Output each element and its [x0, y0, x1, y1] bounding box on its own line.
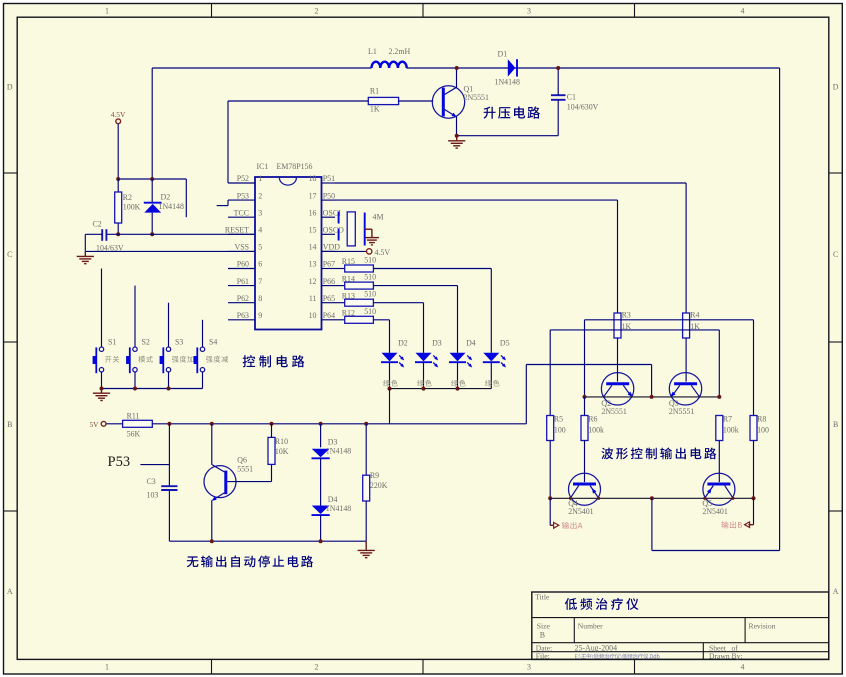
resistor R10 — [271, 464, 273, 481]
svg-text:14: 14 — [309, 243, 317, 252]
svg-text:2: 2 — [258, 191, 262, 200]
switch S1 — [101, 269, 103, 348]
svg-text:7: 7 — [258, 277, 262, 286]
junction stop rail — [210, 539, 214, 543]
wire C3 column bottom — [168, 490, 170, 541]
svg-text:4: 4 — [258, 226, 262, 235]
svg-text:OSCO: OSCO — [323, 226, 344, 235]
svg-text:3: 3 — [258, 208, 262, 217]
svg-text:10K: 10K — [275, 447, 289, 456]
svg-text:R6: R6 — [588, 415, 597, 424]
junction output rail — [548, 496, 552, 500]
wire R8 down — [753, 441, 755, 499]
svg-text:A: A — [833, 587, 839, 596]
wire output A stub — [549, 498, 551, 525]
svg-text:15: 15 — [309, 226, 317, 235]
wire P52 route — [227, 101, 229, 183]
junction D2 top — [150, 177, 154, 181]
wire 4.5V down — [117, 124, 119, 179]
switch S3 — [168, 303, 170, 347]
junction Q1 collector node — [455, 66, 459, 70]
wire RESET row — [85, 233, 102, 235]
port output B — [745, 522, 750, 528]
diode D1 — [508, 59, 516, 76]
label waveform block — [601, 448, 716, 460]
svg-text:R10: R10 — [275, 437, 288, 446]
svg-text:4.5V: 4.5V — [111, 110, 126, 119]
ground crystal — [365, 228, 372, 230]
svg-text:2N5551: 2N5551 — [669, 407, 694, 416]
wire VSS row — [85, 250, 255, 252]
svg-text:Title: Title — [535, 593, 550, 602]
svg-text:100k: 100k — [723, 426, 739, 435]
node P53 net wire — [140, 464, 169, 466]
svg-text:A: A — [7, 587, 13, 596]
svg-text:3: 3 — [527, 7, 531, 16]
svg-text:16: 16 — [309, 208, 317, 217]
svg-text:L1: L1 — [368, 47, 377, 56]
svg-text:VDD: VDD — [323, 243, 340, 252]
label auto-stop block — [187, 556, 313, 568]
wire Q1 emitter — [456, 117, 458, 136]
wire P53 stub jog — [227, 200, 229, 206]
svg-text:B: B — [540, 631, 545, 640]
svg-text:2N5401: 2N5401 — [568, 507, 593, 516]
svg-text:R7: R7 — [723, 415, 732, 424]
svg-text:R3: R3 — [622, 311, 631, 320]
inductor L1 — [372, 62, 407, 68]
diode D3 — [320, 424, 322, 448]
wire emitter feed — [526, 364, 651, 366]
svg-text:1: 1 — [105, 663, 109, 672]
wire top rail mid segment — [407, 67, 780, 69]
svg-text:P60: P60 — [237, 260, 249, 269]
svg-text:B: B — [7, 420, 12, 429]
title text — [565, 598, 639, 610]
wire R4 to Q3 base — [685, 338, 687, 382]
svg-text:P62: P62 — [237, 294, 249, 303]
resistor R13 — [335, 302, 345, 304]
wire C2 ground drop — [84, 234, 86, 251]
svg-text:1N4148: 1N4148 — [159, 202, 184, 211]
wire LED cathode rail — [390, 388, 492, 390]
resistor R12 — [335, 319, 345, 321]
svg-text:P53: P53 — [108, 454, 131, 470]
svg-text:103: 103 — [147, 491, 159, 500]
IC pin stubs — [228, 182, 255, 184]
junction LED rail — [422, 387, 426, 391]
svg-text:510: 510 — [364, 256, 376, 265]
wire boost bottom — [457, 135, 559, 137]
svg-text:510: 510 — [364, 307, 376, 316]
svg-text:P67: P67 — [323, 260, 335, 269]
svg-text:VSS: VSS — [235, 243, 249, 252]
svg-text:R5: R5 — [554, 415, 563, 424]
svg-text:5V: 5V — [89, 420, 99, 429]
svg-text:D4: D4 — [466, 339, 476, 348]
wire Q1 collector — [456, 68, 458, 88]
label control circuit block — [243, 355, 305, 367]
switch S4 — [202, 320, 204, 347]
transistor Q3 — [669, 373, 701, 405]
svg-text:2.2mH: 2.2mH — [389, 47, 411, 56]
svg-text:Revision: Revision — [749, 622, 776, 631]
svg-text:D4: D4 — [328, 495, 338, 504]
svg-text:R11: R11 — [127, 411, 140, 420]
svg-text:EM78P156: EM78P156 — [277, 162, 313, 171]
junction D2 bottom — [150, 232, 154, 236]
svg-text:P65: P65 — [323, 294, 335, 303]
transistor Q1 — [432, 86, 464, 118]
svg-text:C: C — [833, 250, 838, 259]
svg-text:2: 2 — [315, 7, 319, 16]
svg-text:510: 510 — [364, 273, 376, 282]
resistor R3 — [614, 313, 621, 338]
svg-text:100: 100 — [757, 426, 769, 435]
wire Q6 collector — [211, 424, 213, 465]
svg-text:5551: 5551 — [237, 465, 253, 474]
svg-text:2: 2 — [315, 663, 319, 672]
svg-text:1: 1 — [105, 7, 109, 16]
svg-text:13: 13 — [309, 260, 317, 269]
wire collector tie — [585, 396, 720, 398]
LED D2 — [389, 320, 391, 353]
svg-text:S2: S2 — [142, 338, 150, 347]
svg-text:D2: D2 — [398, 339, 408, 348]
svg-text:Number: Number — [578, 622, 603, 631]
svg-text:R12: R12 — [342, 309, 355, 318]
wire top rail left segment — [152, 67, 371, 69]
svg-text:Drawn By:: Drawn By: — [709, 652, 743, 661]
svg-text:C1: C1 — [567, 93, 576, 102]
svg-text:C2: C2 — [93, 220, 102, 229]
svg-text:4M: 4M — [373, 213, 384, 222]
capacitor C3 — [161, 485, 177, 487]
wire C3 column top — [168, 424, 170, 486]
transistor Q4 — [569, 473, 601, 505]
svg-text:D: D — [833, 83, 839, 92]
svg-text:4: 4 — [741, 7, 745, 16]
svg-text:P61: P61 — [237, 277, 249, 286]
zone tick marks — [211, 4, 213, 18]
svg-text:6: 6 — [258, 260, 262, 269]
LED D5 — [490, 269, 492, 353]
svg-text:2N5551: 2N5551 — [464, 93, 489, 102]
svg-text:File:: File: — [536, 652, 550, 661]
resistor R5 — [547, 416, 554, 441]
svg-text:P66: P66 — [323, 277, 335, 286]
svg-text:56K: 56K — [127, 429, 141, 438]
wire switch ground rail — [102, 388, 203, 390]
switch S2 — [134, 286, 136, 347]
junction collector tie — [583, 395, 587, 399]
wire R5 down — [549, 441, 551, 499]
wire P51 to R4 — [335, 182, 686, 184]
svg-text:2N5401: 2N5401 — [702, 507, 727, 516]
svg-text:100K: 100K — [123, 203, 141, 212]
resistor R1 — [228, 100, 368, 102]
junction switch rail — [133, 387, 137, 391]
resistor R2 — [117, 179, 119, 192]
svg-text:D3: D3 — [328, 437, 338, 446]
wire LED rail drop — [389, 389, 391, 424]
svg-text:P50: P50 — [323, 191, 335, 200]
svg-text:1: 1 — [258, 174, 262, 183]
wire boost feed return — [651, 498, 653, 550]
svg-text:D2: D2 — [161, 193, 171, 202]
resistor R6 — [584, 397, 586, 416]
diode D4 — [320, 458, 322, 505]
junction boost bottom — [455, 134, 459, 138]
wire output B stub — [753, 498, 755, 524]
svg-text:R8: R8 — [757, 415, 766, 424]
svg-text:1N4148: 1N4148 — [495, 78, 520, 87]
resistor R7 — [716, 416, 723, 441]
svg-text:P64: P64 — [323, 311, 335, 320]
svg-text:1K: 1K — [370, 105, 380, 114]
svg-text:Size: Size — [537, 622, 551, 631]
svg-text:8: 8 — [258, 294, 262, 303]
wire output rail — [550, 497, 753, 499]
junction C1 top node — [556, 66, 560, 70]
svg-text:1N4148: 1N4148 — [326, 504, 351, 513]
svg-text:1N4148: 1N4148 — [326, 447, 351, 456]
transistor Q2 — [601, 373, 633, 405]
power terminal VDD 4.5V — [322, 250, 367, 252]
capacitor C1 — [551, 94, 566, 96]
svg-text:P52: P52 — [237, 174, 249, 183]
svg-text:11: 11 — [309, 294, 317, 303]
svg-text:B: B — [833, 420, 838, 429]
wire P50 to R3 — [335, 199, 618, 201]
svg-text:100k: 100k — [588, 426, 604, 435]
svg-text:R15: R15 — [342, 257, 355, 266]
wire R7 to Q5 base — [718, 441, 720, 483]
junction R2 bottom — [116, 232, 120, 236]
svg-text:510: 510 — [364, 290, 376, 299]
diode D2 — [151, 179, 153, 203]
svg-text:10: 10 — [309, 311, 317, 320]
svg-text:R1: R1 — [370, 87, 379, 96]
wire R6 to Q4 base — [584, 441, 586, 483]
resistor R4 — [683, 313, 690, 338]
svg-text:D: D — [7, 83, 13, 92]
label boost circuit block — [484, 106, 541, 118]
svg-text:R14: R14 — [342, 274, 355, 283]
svg-text:D5: D5 — [500, 339, 510, 348]
wire crossover lower — [550, 329, 719, 331]
crystal Y1 4M — [338, 212, 340, 224]
transistor Q5 — [703, 473, 735, 505]
svg-text:P51: P51 — [323, 174, 335, 183]
svg-text:C: C — [7, 250, 12, 259]
svg-text:4: 4 — [741, 663, 745, 672]
op-amp IC1 EM78P156 body — [255, 177, 322, 330]
svg-text:D1: D1 — [498, 50, 508, 59]
svg-text:TCC: TCC — [234, 208, 249, 217]
svg-text:5: 5 — [258, 243, 262, 252]
ground stop circuit — [365, 541, 367, 550]
title block frame — [532, 592, 829, 659]
LED D4 — [457, 286, 459, 353]
resistor R15 — [335, 268, 345, 270]
svg-text:P53: P53 — [237, 191, 249, 200]
svg-text:12: 12 — [309, 277, 317, 286]
svg-text:C3: C3 — [147, 477, 156, 486]
svg-text:25-Aug-2004: 25-Aug-2004 — [575, 643, 618, 652]
wire node R2 D2 top — [118, 178, 186, 180]
svg-text:R4: R4 — [690, 311, 699, 320]
capacitor C2 — [101, 229, 103, 241]
ground boost — [456, 136, 458, 141]
wire Q6 emitter — [211, 500, 213, 541]
svg-text:9: 9 — [258, 311, 262, 320]
svg-text:4.5V: 4.5V — [375, 248, 391, 257]
power terminal 4.5V — [116, 119, 121, 124]
ground VSS — [84, 251, 86, 256]
svg-text:Q6: Q6 — [237, 456, 247, 465]
svg-text:S3: S3 — [175, 338, 183, 347]
resistor R9 — [365, 424, 367, 475]
wire TCC riser — [185, 179, 187, 217]
svg-text:D3: D3 — [432, 339, 442, 348]
svg-text:104/630V: 104/630V — [567, 103, 599, 112]
svg-text:IC1: IC1 — [257, 162, 269, 171]
wire crossover upper — [585, 319, 754, 321]
svg-text:S4: S4 — [209, 338, 217, 347]
resistor R11 — [106, 423, 122, 425]
LED D3 — [423, 303, 425, 353]
wire R3 to Q2 base — [617, 338, 619, 382]
svg-text:R2: R2 — [123, 193, 132, 202]
junction 5V rail — [167, 422, 171, 426]
svg-text:R9: R9 — [370, 471, 379, 480]
svg-text:220K: 220K — [370, 481, 388, 490]
power terminal 5V — [101, 421, 106, 426]
svg-text:2N5551: 2N5551 — [601, 407, 626, 416]
svg-text:S1: S1 — [108, 338, 116, 347]
svg-text:100: 100 — [554, 426, 566, 435]
junction R2 top — [116, 177, 120, 181]
port output A — [554, 522, 559, 528]
svg-text:3: 3 — [527, 663, 531, 672]
wire 5V rail — [152, 423, 526, 425]
svg-text:17: 17 — [309, 191, 317, 200]
svg-text:RESET: RESET — [225, 226, 249, 235]
resistor R14 — [335, 285, 345, 287]
wire node column — [151, 68, 153, 179]
svg-text:18: 18 — [309, 174, 317, 183]
ground switches — [101, 389, 103, 393]
svg-text:R13: R13 — [342, 291, 355, 300]
wire stop circuit bottom rail — [169, 540, 366, 542]
svg-text:P63: P63 — [237, 311, 249, 320]
transistor Q6 — [204, 466, 236, 498]
resistor R8 — [750, 416, 757, 441]
file path text — [575, 654, 660, 660]
